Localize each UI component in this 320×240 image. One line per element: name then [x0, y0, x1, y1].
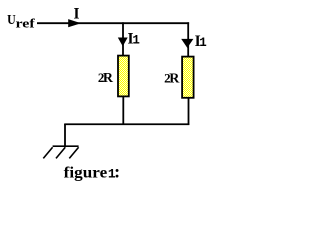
svg-text:ref: ref — [16, 17, 36, 31]
svg-text:1: 1 — [132, 33, 140, 47]
wire: right branch vertical (top) — [187, 22, 189, 56]
resistor 2R (left) body — [118, 56, 129, 97]
svg-text:R: R — [169, 72, 180, 87]
wire: left branch vertical (bottom) — [122, 97, 124, 126]
wire: top rail from Uref to right corner — [37, 22, 189, 24]
label I1 (right branch) — [195, 33, 207, 50]
current arrow I1 (right branch) — [181, 39, 193, 48]
ground — [43, 146, 78, 158]
current arrow I1 (left branch) — [118, 38, 128, 47]
wire: left branch vertical (top) — [122, 22, 124, 55]
wire: ground stem — [64, 124, 66, 147]
label I1 (left branch) — [128, 30, 140, 47]
wire: bottom rail — [64, 123, 189, 125]
svg-text::: : — [114, 162, 120, 182]
wire: right branch vertical (bottom) — [188, 98, 190, 125]
svg-text:R: R — [103, 71, 114, 86]
svg-text:1: 1 — [199, 36, 207, 50]
node Uref label — [7, 13, 36, 31]
current arrow I on top rail — [68, 19, 81, 27]
svg-text:figure: figure — [64, 164, 108, 181]
caption: figure 1: — [64, 162, 120, 182]
label 2R (right) — [164, 71, 180, 87]
label 2R (left) — [98, 70, 114, 86]
svg-text:U: U — [7, 13, 16, 28]
resistor 2R (right) body — [182, 57, 194, 98]
svg-text:I: I — [74, 5, 80, 22]
